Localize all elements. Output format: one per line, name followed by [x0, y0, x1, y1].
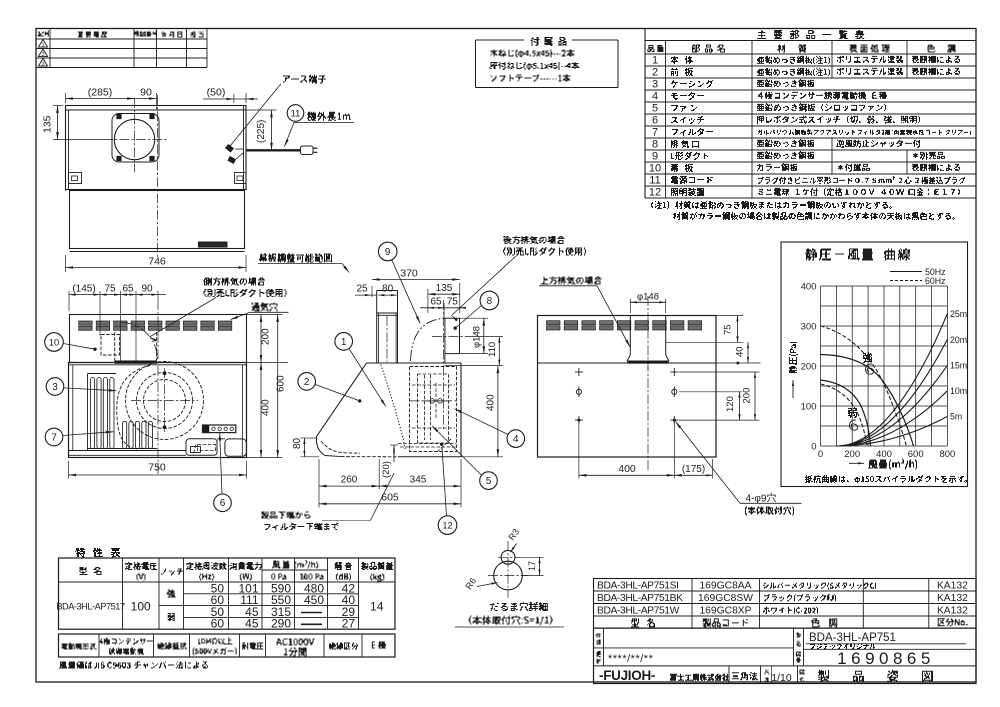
dim (50) [233, 94, 235, 103]
svg-text:40: 40 [735, 346, 746, 357]
svg-text:3: 3 [52, 382, 58, 393]
svg-text:3: 3 [41, 62, 44, 68]
svg-text:-FUJIOH-: -FUJIOH- [599, 668, 655, 683]
front view duct cover panel [70, 315, 247, 363]
svg-text:400: 400 [486, 394, 497, 411]
svg-text:120: 120 [725, 396, 736, 412]
svg-text:345: 345 [410, 475, 427, 486]
revision history table [36, 38, 207, 40]
filter frame [87, 374, 89, 451]
svg-text:5: 5 [486, 476, 492, 487]
svg-text:4-φ9穴: 4-φ9穴 [746, 492, 777, 505]
keyhole labels [490, 602, 548, 611]
side dim 80 [378, 294, 396, 296]
svg-text:90: 90 [141, 284, 153, 295]
chart title [805, 249, 910, 261]
rear dim 120 [679, 391, 742, 393]
dim (225) [246, 109, 277, 111]
product code table [594, 579, 977, 629]
svg-text:12: 12 [649, 187, 661, 199]
svg-text:1: 1 [41, 43, 44, 49]
rear exhaust duct side view [444, 318, 446, 363]
side dim 65 75 [443, 303, 445, 318]
side view body outline [367, 362, 462, 364]
svg-text:5: 5 [652, 103, 658, 115]
fan scroll dashed circles [126, 362, 204, 440]
svg-text:9: 9 [652, 151, 658, 163]
phantom L-duct elbow side [411, 318, 445, 361]
svg-text:(145): (145) [72, 284, 95, 295]
svg-text:169GC8XP: 169GC8XP [699, 606, 751, 617]
side dim 135 [427, 289, 429, 313]
switch panel front [203, 425, 236, 433]
side dims 260 345 605 [318, 459, 320, 508]
dim 17 [515, 556, 544, 558]
rear dim 75 [716, 315, 743, 317]
fan center cross [131, 400, 198, 402]
flange bolts [117, 114, 121, 118]
balloon 1 [335, 333, 353, 351]
curve label weak [848, 408, 857, 418]
dim 90 [135, 98, 157, 100]
rear mounting holes [575, 371, 583, 373]
svg-text:400: 400 [261, 399, 272, 416]
power cord [246, 149, 301, 151]
top view front section [70, 191, 245, 249]
balloon 4 [507, 430, 525, 448]
svg-text:1: 1 [341, 337, 347, 348]
svg-text:200: 200 [801, 362, 817, 373]
sakusei tiny label [596, 634, 601, 638]
svg-text:****/**/**: ****/**/** [608, 653, 654, 665]
fan curve weak 50Hz [821, 380, 871, 446]
rear duct tube [629, 316, 631, 356]
svg-text:20m: 20m [950, 335, 967, 345]
characteristics table [59, 558, 396, 629]
side dim phi148 [460, 317, 489, 319]
svg-text:75: 75 [447, 297, 459, 308]
svg-text:17: 17 [527, 561, 537, 571]
svg-text:400: 400 [876, 449, 892, 460]
earth terminal [226, 145, 234, 153]
svg-text:450: 450 [304, 593, 324, 607]
front dim 600 [247, 457, 283, 459]
svg-text:9: 9 [385, 247, 391, 258]
svg-text:11: 11 [291, 108, 301, 118]
svg-text:750: 750 [148, 462, 166, 474]
svg-text:BDA-3HL-AP751W: BDA-3HL-AP751W [597, 606, 680, 617]
label rear exhaust case [504, 236, 565, 244]
svg-text:135: 135 [436, 283, 453, 294]
svg-text:25m: 25m [950, 309, 967, 319]
svg-text:200: 200 [261, 328, 272, 345]
filter slots tall [90, 378, 94, 449]
rear dim phi148 top [629, 299, 631, 313]
svg-text:45: 45 [245, 617, 259, 631]
svg-text:400: 400 [801, 282, 817, 293]
svg-text:6: 6 [652, 115, 658, 127]
svg-text:BDA-3HL-AP7517: BDA-3HL-AP7517 [56, 602, 125, 612]
chart grid [820, 286, 822, 446]
balloon 6 [214, 494, 232, 512]
side dim 370 [371, 286, 373, 297]
scale label [765, 670, 770, 675]
performance chart panel [781, 242, 968, 487]
side duct cover column [376, 291, 378, 364]
duct flange bar front [115, 361, 157, 364]
front vent slots [79, 321, 93, 325]
svg-text:800: 800 [939, 449, 955, 460]
note below parts table [651, 201, 892, 209]
balloon 8 [480, 291, 499, 310]
balloon 12 [438, 516, 457, 535]
side inner liner dotted [381, 365, 405, 450]
side exhaust phantom elbow front [121, 323, 157, 359]
svg-text:27: 27 [342, 617, 356, 631]
balloon 7 [45, 428, 63, 446]
svg-text:600: 600 [276, 375, 287, 392]
svg-text:135: 135 [42, 115, 54, 133]
svg-text:7: 7 [51, 432, 57, 443]
fujitec original [810, 644, 875, 649]
side dim (20) [390, 444, 398, 446]
svg-text:370: 370 [400, 268, 418, 280]
duct centerlines [134, 98, 136, 172]
lamp unit [186, 439, 217, 456]
svg-text:8: 8 [652, 139, 658, 151]
fan curve strong 60Hz dashed [821, 326, 907, 446]
revision triangles 1 2 3 [38, 40, 47, 48]
side dim 25 [355, 294, 377, 296]
zumei label [800, 670, 805, 675]
svg-text:6: 6 [220, 498, 226, 509]
svg-text:2: 2 [41, 52, 44, 58]
svg-text:12: 12 [442, 521, 452, 531]
svg-text:80: 80 [382, 284, 394, 295]
label makuita adjust range [259, 254, 332, 263]
label side exhaust case [203, 278, 265, 286]
svg-text:110: 110 [487, 342, 498, 357]
svg-text:1: 1 [652, 55, 658, 67]
svg-text:(20): (20) [381, 461, 392, 478]
rear mounting brackets [69, 173, 82, 184]
chart legend [890, 271, 922, 273]
front dim 750 [68, 461, 70, 479]
front dims 145 75 65 90 [68, 291, 70, 311]
svg-text:200: 200 [742, 388, 753, 404]
svg-text:14: 14 [370, 600, 384, 614]
front dim 400 [260, 363, 262, 458]
chart note [805, 475, 967, 483]
svg-text:φ148: φ148 [637, 291, 659, 302]
scroll casing dashed outline [117, 366, 150, 450]
projection method sankakuhou [732, 672, 758, 680]
label product lower edge to filter [262, 512, 311, 520]
svg-text:2: 2 [652, 67, 658, 79]
keyhole daruma hole detail [494, 561, 523, 590]
koushin tiny label [597, 651, 601, 657]
balloon 10 [45, 333, 64, 352]
duct flange plate [112, 114, 159, 163]
rear view outline [538, 316, 717, 458]
svg-text:600: 600 [908, 449, 924, 460]
svg-text:65: 65 [122, 284, 134, 295]
side dim 400 [461, 456, 503, 458]
balloon 11 cable length [287, 105, 304, 122]
svg-text:KA132: KA132 [937, 581, 968, 592]
svg-text:0: 0 [818, 449, 823, 460]
svg-text:0: 0 [811, 442, 816, 453]
accessories box fuzokuhin [476, 39, 525, 41]
front hood centerline [157, 300, 159, 474]
svg-text:KA132: KA132 [937, 593, 968, 604]
label vent hole [252, 303, 278, 312]
curve label strong [863, 352, 872, 363]
rear dims 400 (175) [578, 424, 580, 479]
svg-text:400: 400 [618, 463, 636, 475]
rear duct centerline [647, 296, 649, 472]
front view body outline [69, 363, 247, 458]
hood centerline vertical [157, 95, 159, 258]
svg-text:260: 260 [341, 475, 358, 486]
svg-text:BDA-3HL-AP751: BDA-3HL-AP751 [809, 632, 896, 644]
right end cap [225, 439, 247, 456]
power plug [301, 146, 314, 155]
svg-text:60Hz: 60Hz [925, 276, 946, 286]
label top exhaust case [541, 277, 602, 285]
side dim 110 [466, 336, 503, 338]
svg-text:8: 8 [487, 296, 493, 307]
svg-text:(285): (285) [88, 87, 113, 99]
svg-text:746: 746 [148, 256, 166, 268]
balloon 5 [480, 472, 498, 490]
model name vertical label [797, 633, 801, 638]
svg-text:BDA-3HL-AP751SI: BDA-3HL-AP751SI [597, 581, 679, 592]
svg-text:169GC8AA: 169GC8AA [699, 581, 751, 592]
svg-text:200: 200 [844, 449, 860, 460]
fan curve strong 50Hz [821, 355, 914, 447]
svg-text:KA132: KA132 [937, 606, 968, 617]
svg-text:290: 290 [271, 617, 291, 631]
duct hole circle [114, 119, 154, 159]
dim (285) [65, 93, 67, 103]
side interior damper bottom [400, 446, 457, 448]
rear dim 40 [716, 362, 761, 364]
balloon 3 [46, 378, 64, 396]
svg-text:4: 4 [652, 91, 658, 103]
drawing title seihin sugata zu [818, 670, 933, 682]
svg-text:75: 75 [723, 324, 734, 335]
svg-text:4: 4 [513, 434, 519, 445]
x axis title [849, 462, 864, 464]
duct resistance curves [836, 314, 947, 446]
filter slots short [123, 421, 127, 448]
svg-text:100: 100 [801, 402, 817, 413]
svg-text:5m: 5m [950, 412, 962, 422]
svg-text:90: 90 [140, 87, 152, 99]
svg-text:BDA-3HL-AP751BK: BDA-3HL-AP751BK [597, 593, 683, 604]
side dim 80 lip [301, 437, 317, 439]
earth terminal label [283, 75, 326, 84]
svg-text:60: 60 [211, 617, 225, 631]
rear dim 200 [679, 371, 760, 373]
svg-text:100: 100 [131, 600, 151, 614]
balloon 2 [298, 373, 316, 391]
svg-text:φ148: φ148 [472, 326, 483, 348]
airflow note [59, 662, 208, 669]
svg-text:(50): (50) [207, 87, 226, 99]
svg-text:10: 10 [49, 337, 59, 347]
fan curve weak 60Hz dashed [821, 384, 867, 446]
svg-text:2: 2 [304, 377, 310, 388]
balloon 9 [378, 242, 397, 261]
svg-text:10: 10 [649, 163, 661, 175]
characteristics table title [75, 548, 120, 558]
svg-text:7: 7 [652, 127, 658, 139]
dim 135 [53, 105, 63, 107]
title block [594, 628, 977, 683]
svg-text:75: 75 [104, 284, 116, 295]
side exhaust knockout dashed [101, 335, 120, 356]
top view switch cutout [199, 242, 228, 247]
motor info table [59, 634, 396, 657]
rear vent slots [547, 321, 561, 325]
svg-text:80: 80 [292, 437, 303, 449]
front dim 200 [247, 314, 283, 316]
main parts list table [644, 29, 646, 199]
svg-text:15m: 15m [950, 361, 967, 371]
svg-text:300: 300 [801, 322, 817, 333]
side interior fan casing dashed [410, 367, 457, 452]
svg-text:1/10: 1/10 [771, 672, 792, 684]
svg-text:3: 3 [652, 79, 658, 91]
dim 746 [65, 255, 67, 272]
svg-text:169GC8SW: 169GC8SW [698, 593, 753, 604]
duct hidden lines in cover [114, 332, 116, 361]
svg-text:25: 25 [356, 284, 368, 295]
y axis title [789, 342, 798, 373]
svg-text:65: 65 [430, 297, 442, 308]
bottom lip band [69, 450, 187, 452]
svg-text:11: 11 [649, 175, 660, 187]
svg-text:(175): (175) [682, 464, 705, 475]
svg-text:10m: 10m [950, 386, 967, 396]
svg-text:(225): (225) [256, 120, 267, 143]
svg-text:1690865: 1690865 [837, 649, 935, 668]
top view outline [66, 106, 247, 190]
